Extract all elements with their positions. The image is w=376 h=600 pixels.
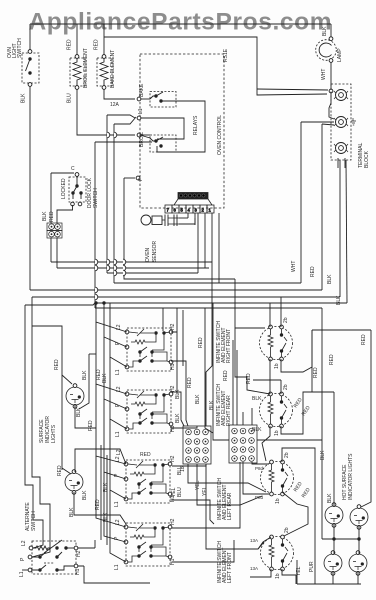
svg-text:L2: L2 [21,540,27,546]
svg-text:BLOCK: BLOCK [364,150,370,168]
svg-text:H1: H1 [75,568,81,575]
svg-text:RED: RED [313,367,319,378]
svg-text:L2: L2 [116,386,122,392]
svg-text:BLK: BLK [336,295,342,305]
svg-text:1b: 1b [274,430,280,436]
svg-text:P8d: P8d [255,495,264,500]
svg-text:RED: RED [187,377,193,388]
svg-text:RED: RED [293,397,304,409]
svg-text:H2: H2 [170,518,176,525]
svg-text:RED: RED [57,465,63,476]
svg-text:L2: L2 [116,324,122,330]
svg-text:BLK: BLK [175,389,181,399]
svg-text:LEFT REAR: LEFT REAR [227,492,233,520]
svg-text:P8d: P8d [255,466,264,471]
svg-text:BLK: BLK [209,400,215,410]
svg-text:P: P [114,536,120,540]
svg-text:LIGHTS: LIGHTS [51,424,57,443]
svg-text:RED: RED [361,334,367,345]
svg-text:SWITCH: SWITCH [31,511,37,531]
svg-text:RED: RED [54,359,60,370]
svg-text:SENSOR: SENSOR [152,240,158,262]
svg-text:BLK: BLK [320,450,326,460]
svg-text:BLK: BLK [69,507,75,517]
svg-text:H1: H1 [170,363,176,370]
svg-text:RED: RED [293,481,304,493]
svg-text:1b: 1b [274,363,280,369]
svg-text:BLK: BLK [21,93,27,103]
svg-text:BLK: BLK [82,490,88,500]
svg-text:H2: H2 [76,550,82,557]
svg-text:BLK: BLK [76,407,82,417]
svg-text:WHT: WHT [321,69,327,80]
svg-text:H2: H2 [170,455,176,462]
svg-text:RED: RED [301,405,312,417]
svg-text:RED: RED [329,354,335,365]
svg-text:YEL: YEL [171,487,177,497]
svg-text:13A: 13A [250,566,258,571]
svg-text:RED: RED [310,266,316,277]
svg-text:BLK: BLK [322,26,328,36]
svg-text:BLK: BLK [82,370,88,380]
svg-text:SWITCH: SWITCH [93,188,99,208]
svg-text:BLK: BLK [42,211,48,221]
svg-text:L1: L1 [114,564,120,570]
svg-text:1b: 1b [275,573,281,579]
svg-text:RIGHT REAR: RIGHT REAR [226,395,232,426]
svg-text:OVEN: OVEN [145,247,151,262]
svg-text:2b: 2b [283,317,289,323]
svg-text:RED: RED [198,337,204,348]
svg-text:F: F [138,178,144,181]
svg-text:RED: RED [49,211,55,222]
svg-text:L1: L1 [115,431,121,437]
svg-text:BAKE: BAKE [139,83,145,97]
svg-text:P: P [115,341,121,345]
svg-text:BLK: BLK [327,274,333,284]
svg-text:AppliancePartsPros.com: AppliancePartsPros.com [29,9,332,36]
svg-text:L1: L1 [114,501,120,507]
svg-text:2: 2 [202,208,205,213]
svg-text:2b: 2b [284,452,290,458]
svg-text:P: P [20,557,26,561]
svg-text:P: P [115,403,121,407]
svg-text:YEL: YEL [202,486,208,496]
svg-text:INDICATOR LIGHTS: INDICATOR LIGHTS [348,453,354,500]
svg-text:BLK: BLK [195,394,201,404]
svg-text:L2: L2 [115,456,121,462]
svg-text:LAMP: LAMP [337,48,343,62]
svg-text:RELAYS: RELAYS [193,115,199,135]
svg-text:L1: L1 [138,108,144,114]
svg-text:H2: H2 [170,323,176,330]
svg-text:BLK: BLK [327,493,333,503]
svg-text:13A: 13A [250,538,258,543]
svg-text:LOCKED: LOCKED [61,178,67,199]
svg-text:RED: RED [223,370,229,381]
svg-text:BLU: BLU [177,487,183,497]
svg-text:WHT: WHT [291,261,297,272]
svg-text:5: 5 [181,208,184,213]
svg-text:H1: H1 [170,425,176,432]
svg-text:RS1E: RS1E [223,48,229,62]
svg-text:RED: RED [94,39,100,50]
svg-text:RED: RED [246,373,252,384]
svg-text:SWITCH: SWITCH [17,38,23,58]
svg-text:RED: RED [95,499,101,510]
svg-text:BLU: BLU [67,93,73,103]
svg-text:RED: RED [301,487,312,499]
svg-text:BLK: BLK [252,396,262,402]
svg-text:RIGHT FRONT: RIGHT FRONT [226,329,232,363]
svg-text:BLK: BLK [103,512,109,522]
svg-text:1b: 1b [180,466,186,472]
svg-text:L1: L1 [19,571,25,577]
svg-text:LEFT FRONT: LEFT FRONT [227,552,233,583]
svg-text:12A: 12A [110,102,120,108]
svg-text:L1: L1 [115,369,121,375]
svg-text:H1: H1 [170,558,176,565]
svg-text:2b: 2b [284,527,290,533]
svg-text:BROIL ELEMENT: BROIL ELEMENT [83,48,89,88]
svg-text:L2: L2 [115,519,121,525]
svg-text:BLK: BLK [103,482,109,492]
svg-text:1b: 1b [275,498,281,504]
svg-text:YEL: YEL [296,566,302,576]
svg-text:BLK: BLK [175,413,181,423]
svg-text:BLK: BLK [102,373,108,383]
svg-text:BAKE ELEMENT: BAKE ELEMENT [110,50,116,88]
svg-text:P: P [114,473,120,477]
svg-text:BLK: BLK [252,427,262,433]
svg-text:OVEN CONTROL: OVEN CONTROL [217,115,223,155]
svg-text:3: 3 [195,208,198,213]
svg-text:RED: RED [67,39,73,50]
svg-text:2b: 2b [283,384,289,390]
svg-text:C: C [71,166,75,172]
svg-text:PUR: PUR [309,561,315,572]
svg-text:RED: RED [140,452,151,458]
svg-text:L2: L2 [116,449,122,455]
svg-text:RED: RED [88,420,94,431]
svg-text:BROIL: BROIL [139,132,145,147]
svg-text:YEL: YEL [195,480,201,490]
